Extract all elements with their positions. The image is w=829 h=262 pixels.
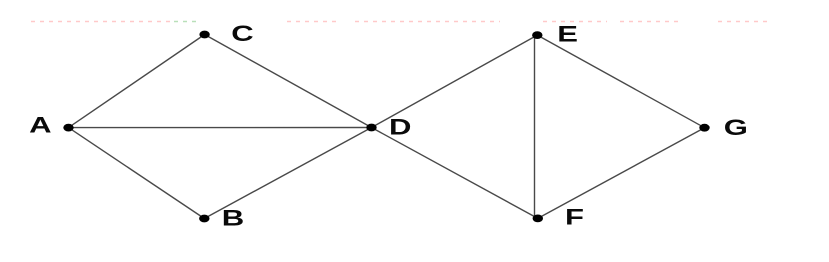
node G <box>699 124 709 132</box>
svg-text:D: D <box>389 114 411 140</box>
faint dotted underline artifact <box>31 21 772 23</box>
node B <box>199 215 209 223</box>
node D <box>366 124 376 132</box>
node F <box>533 215 543 223</box>
wire A-B <box>69 128 205 219</box>
node C <box>199 31 209 39</box>
svg-text:E: E <box>557 21 578 47</box>
wire E-G <box>537 35 704 128</box>
svg-text:A: A <box>29 112 51 138</box>
svg-text:G: G <box>724 114 748 140</box>
wire A-D <box>69 127 372 129</box>
node E <box>532 31 542 39</box>
wire B-D <box>204 128 371 219</box>
svg-text:F: F <box>565 204 584 230</box>
svg-text:C: C <box>231 20 253 46</box>
wire E-F <box>534 35 536 218</box>
wire C-D <box>205 35 372 128</box>
wire F-G <box>538 128 705 219</box>
wire A-C <box>69 35 205 128</box>
wire D-F <box>372 128 538 219</box>
svg-text:B: B <box>222 205 244 231</box>
wire D-E <box>372 35 538 127</box>
edges <box>0 0 1 1</box>
node A <box>63 124 73 132</box>
